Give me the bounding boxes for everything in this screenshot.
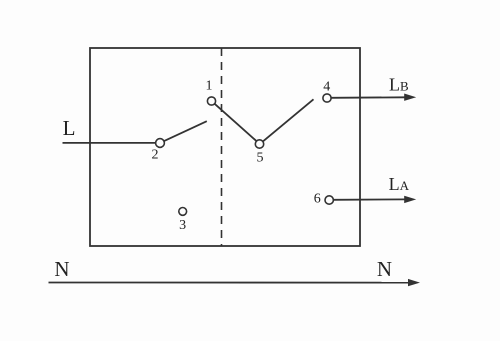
terminal 6 <box>314 192 334 207</box>
svg-text:4: 4 <box>323 80 330 95</box>
wire terminal 6 to output LA with arrow <box>333 196 416 203</box>
dashed partition line <box>221 48 223 246</box>
switch enclosure box <box>90 48 360 246</box>
wire L input to terminal 2 <box>63 142 156 144</box>
wire contact 1 to terminal 5 <box>215 104 257 142</box>
switch lever from terminal 2 toward contact 1 <box>164 121 207 141</box>
svg-text:N: N <box>54 257 69 281</box>
terminal 4 <box>323 80 331 102</box>
svg-text:2: 2 <box>152 147 159 162</box>
svg-text:N: N <box>377 257 392 281</box>
svg-text:3: 3 <box>179 218 186 233</box>
switch lever from terminal 5 toward contact 4 <box>263 99 313 141</box>
svg-text:5: 5 <box>257 151 264 166</box>
terminal 3 <box>179 208 187 234</box>
terminal 1 <box>206 79 216 106</box>
wire terminal 4 to output LB with arrow <box>331 94 416 101</box>
svg-text:1: 1 <box>206 79 213 94</box>
terminal 5 <box>255 140 263 166</box>
svg-text:6: 6 <box>314 192 321 207</box>
terminal 2 <box>152 139 165 163</box>
svg-text:L: L <box>63 116 76 140</box>
neutral wire N with arrow <box>49 279 421 286</box>
